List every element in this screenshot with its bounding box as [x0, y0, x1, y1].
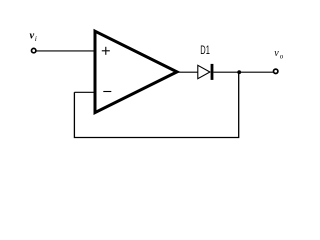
wire: diode cathode to output terminal [213, 71, 273, 73]
output terminal (v_o node) [274, 69, 278, 73]
op-amp - input symbol [103, 91, 111, 93]
wire: op-amp - input stub [74, 91, 96, 93]
svg-text:v: v [30, 30, 35, 41]
svg-text:v: v [274, 48, 279, 59]
diode D1 cathode bar [211, 64, 214, 80]
svg-text:i: i [35, 34, 37, 43]
op-amp U1 [95, 31, 177, 112]
label v_o [274, 48, 284, 60]
op-amp + input symbol [102, 47, 110, 55]
diode D1 [198, 65, 210, 78]
wire: op-amp output to diode anode [177, 71, 198, 73]
svg-text:D1: D1 [200, 45, 210, 57]
wire: input terminal to op-amp + input [36, 50, 96, 52]
wire: feedback loop (left vertical, bottom, right vertical up to node) [74, 72, 238, 138]
junction node (feedback tap) [237, 70, 241, 74]
label v_i [30, 30, 37, 43]
svg-text:o: o [280, 53, 284, 61]
input terminal (v_i node) [32, 48, 36, 52]
